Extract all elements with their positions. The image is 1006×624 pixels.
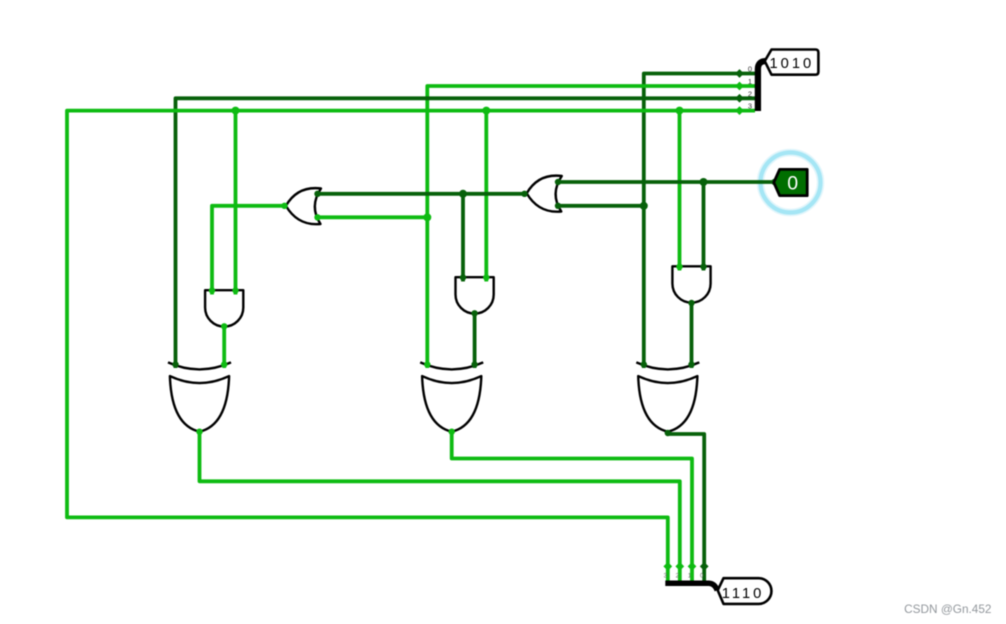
port dot AND3 output <box>688 300 694 306</box>
wire net bit3 branch: to AND2 right input from junction (486.3,110.6) <box>484 111 488 282</box>
port dot OR1 output <box>281 203 287 209</box>
port dot AND2 input right <box>483 274 489 280</box>
port dot AND1 output <box>221 323 227 329</box>
wire net XOR2out (bright): XOR2 output to bottom splitter leg 1 <box>452 432 692 581</box>
wire net AND2out (dark): AND2 output to XOR2 right input <box>473 313 477 368</box>
and-gate AND2 (south facing) <box>456 277 494 313</box>
wire net OR2out (dark): OR2 output to OR1 upper input <box>318 192 526 196</box>
wire net OR2out branch: to AND2 left input from junction (463,193.8) <box>461 194 465 282</box>
wire net bit1 (bright): splitter leg 1 to XOR2 left input, down x=427.3 <box>427 86 755 368</box>
splitter S2 leg0 wire end diamond <box>700 562 709 571</box>
port dot XOR1 input left <box>172 361 178 367</box>
splitter S2 leg3 wire end diamond <box>663 562 672 571</box>
port dot OR2 output <box>521 191 527 197</box>
splitter S2 spine <box>665 583 717 590</box>
port dot XOR1 output <box>196 429 202 435</box>
port dot AND2 output <box>471 310 477 316</box>
wire net bit0 (dark): splitter leg 0 to XOR3 left input, down x=643.8 <box>644 74 755 369</box>
port dot AND2 input left <box>460 274 466 280</box>
svg-text:CSDN @Gn.452: CSDN @Gn.452 <box>904 602 991 616</box>
port dot OR2 input top <box>555 179 561 185</box>
xor-gate XOR2 (south facing) <box>420 362 483 431</box>
port dot XOR3 input right <box>688 361 694 367</box>
wire net bit3 branch: to AND3 left input from junction (679.5,110.6) <box>678 111 682 271</box>
wire net XOR3out (dark): XOR3 output to bottom splitter leg 0 <box>668 432 704 581</box>
splitter S1 spine <box>758 61 766 111</box>
port dot OR1 input bottom <box>314 214 320 220</box>
splitter S2 leg2 wire end diamond <box>675 562 684 571</box>
port dot XOR1 input right <box>221 361 227 367</box>
splitter S1 leg3 wire end diamond <box>735 106 744 115</box>
wire net bit0 branch: OR2 lower input tap at junction (643.8,205.8) <box>558 204 644 208</box>
output pin value 1110 <box>718 578 772 604</box>
port dot OR2 input bottom <box>555 203 561 209</box>
svg-text:0: 0 <box>787 172 798 194</box>
splitter S2 leg1 wire end diamond <box>688 562 697 571</box>
junction bit3/AND1 (235.5,110.6) <box>232 107 240 115</box>
svg-text:1010: 1010 <box>770 56 815 72</box>
xor-gate XOR1 (south facing) <box>168 362 231 431</box>
wire net AND1out (bright): AND1 output to XOR1 right input <box>222 326 226 368</box>
wire net bit3 (bright): splitter leg 3 long loop to bottom splitter leg 3 <box>67 111 755 581</box>
svg-text:2: 2 <box>748 89 752 98</box>
junction bit1/OR1 (427.3,217.3) <box>423 213 431 221</box>
watermark CSDN <box>904 602 991 616</box>
port dot XOR2 input left <box>424 361 430 367</box>
port dot XOR3 output <box>665 430 671 436</box>
port dot XOR2 input right <box>471 361 477 367</box>
svg-text:1: 1 <box>748 77 752 86</box>
splitter S1 leg0 wire end diamond <box>735 69 744 78</box>
junction OR2out/AND2 (463,193.8) <box>459 190 467 198</box>
port dot OR1 input top <box>314 191 320 197</box>
input pin A value 1010 <box>765 50 819 75</box>
wire net AND3out (dark): AND3 output to XOR3 right input <box>690 303 694 368</box>
port dot AND3 input right <box>700 263 706 269</box>
svg-text:3: 3 <box>748 102 752 111</box>
wire net XOR1out (bright): XOR1 output to bottom splitter leg 2 <box>200 432 680 581</box>
selection halo around pin B <box>761 153 821 213</box>
junction bit3/AND2 (486.3,110.6) <box>482 107 490 115</box>
or-gate OR2 (west facing) <box>527 176 562 212</box>
port dot pin B wire end <box>771 179 777 185</box>
svg-text:0: 0 <box>748 65 752 74</box>
input pin B value 0 <box>774 169 807 195</box>
junction bit0/OR2 (643.8,205.8) <box>640 202 648 210</box>
wire net bit2 (dark): splitter leg 2 to XOR1 left input, down x=175.5 <box>176 98 756 368</box>
splitter S1 leg1 wire end diamond <box>735 82 744 91</box>
port dot AND3 input left <box>676 263 682 269</box>
wire net OR1out (bright): OR1 output to AND1 left input <box>212 206 285 295</box>
junction bit3/AND3 (679.5,110.6) <box>676 107 684 115</box>
wire net bit3 branch: to AND1 right input from junction (235.5,110.6) <box>234 111 238 295</box>
port dot XOR2 output <box>449 429 455 435</box>
port dot AND1 input left <box>209 287 215 293</box>
port dot XOR3 input left <box>641 361 647 367</box>
or-gate OR1 (west facing) <box>286 188 321 224</box>
wire net pinB (dark): pin B to OR2 upper input <box>558 180 775 184</box>
wire net bit1 branch: OR1 lower input tap at junction (427.3,217.3) <box>318 215 428 219</box>
port dot AND1 input right <box>232 287 238 293</box>
splitter S1 leg2 wire end diamond <box>735 94 744 103</box>
wire net pinB branch: to AND3 right input from junction (703.5,182) <box>702 182 706 271</box>
xor-gate XOR3 (south facing) <box>636 362 699 431</box>
and-gate AND3 (south facing) <box>672 266 710 302</box>
junction pinB/AND3 (703.5,182) <box>700 178 708 186</box>
and-gate AND1 (south facing) <box>205 290 243 326</box>
svg-text:1110: 1110 <box>722 586 765 602</box>
